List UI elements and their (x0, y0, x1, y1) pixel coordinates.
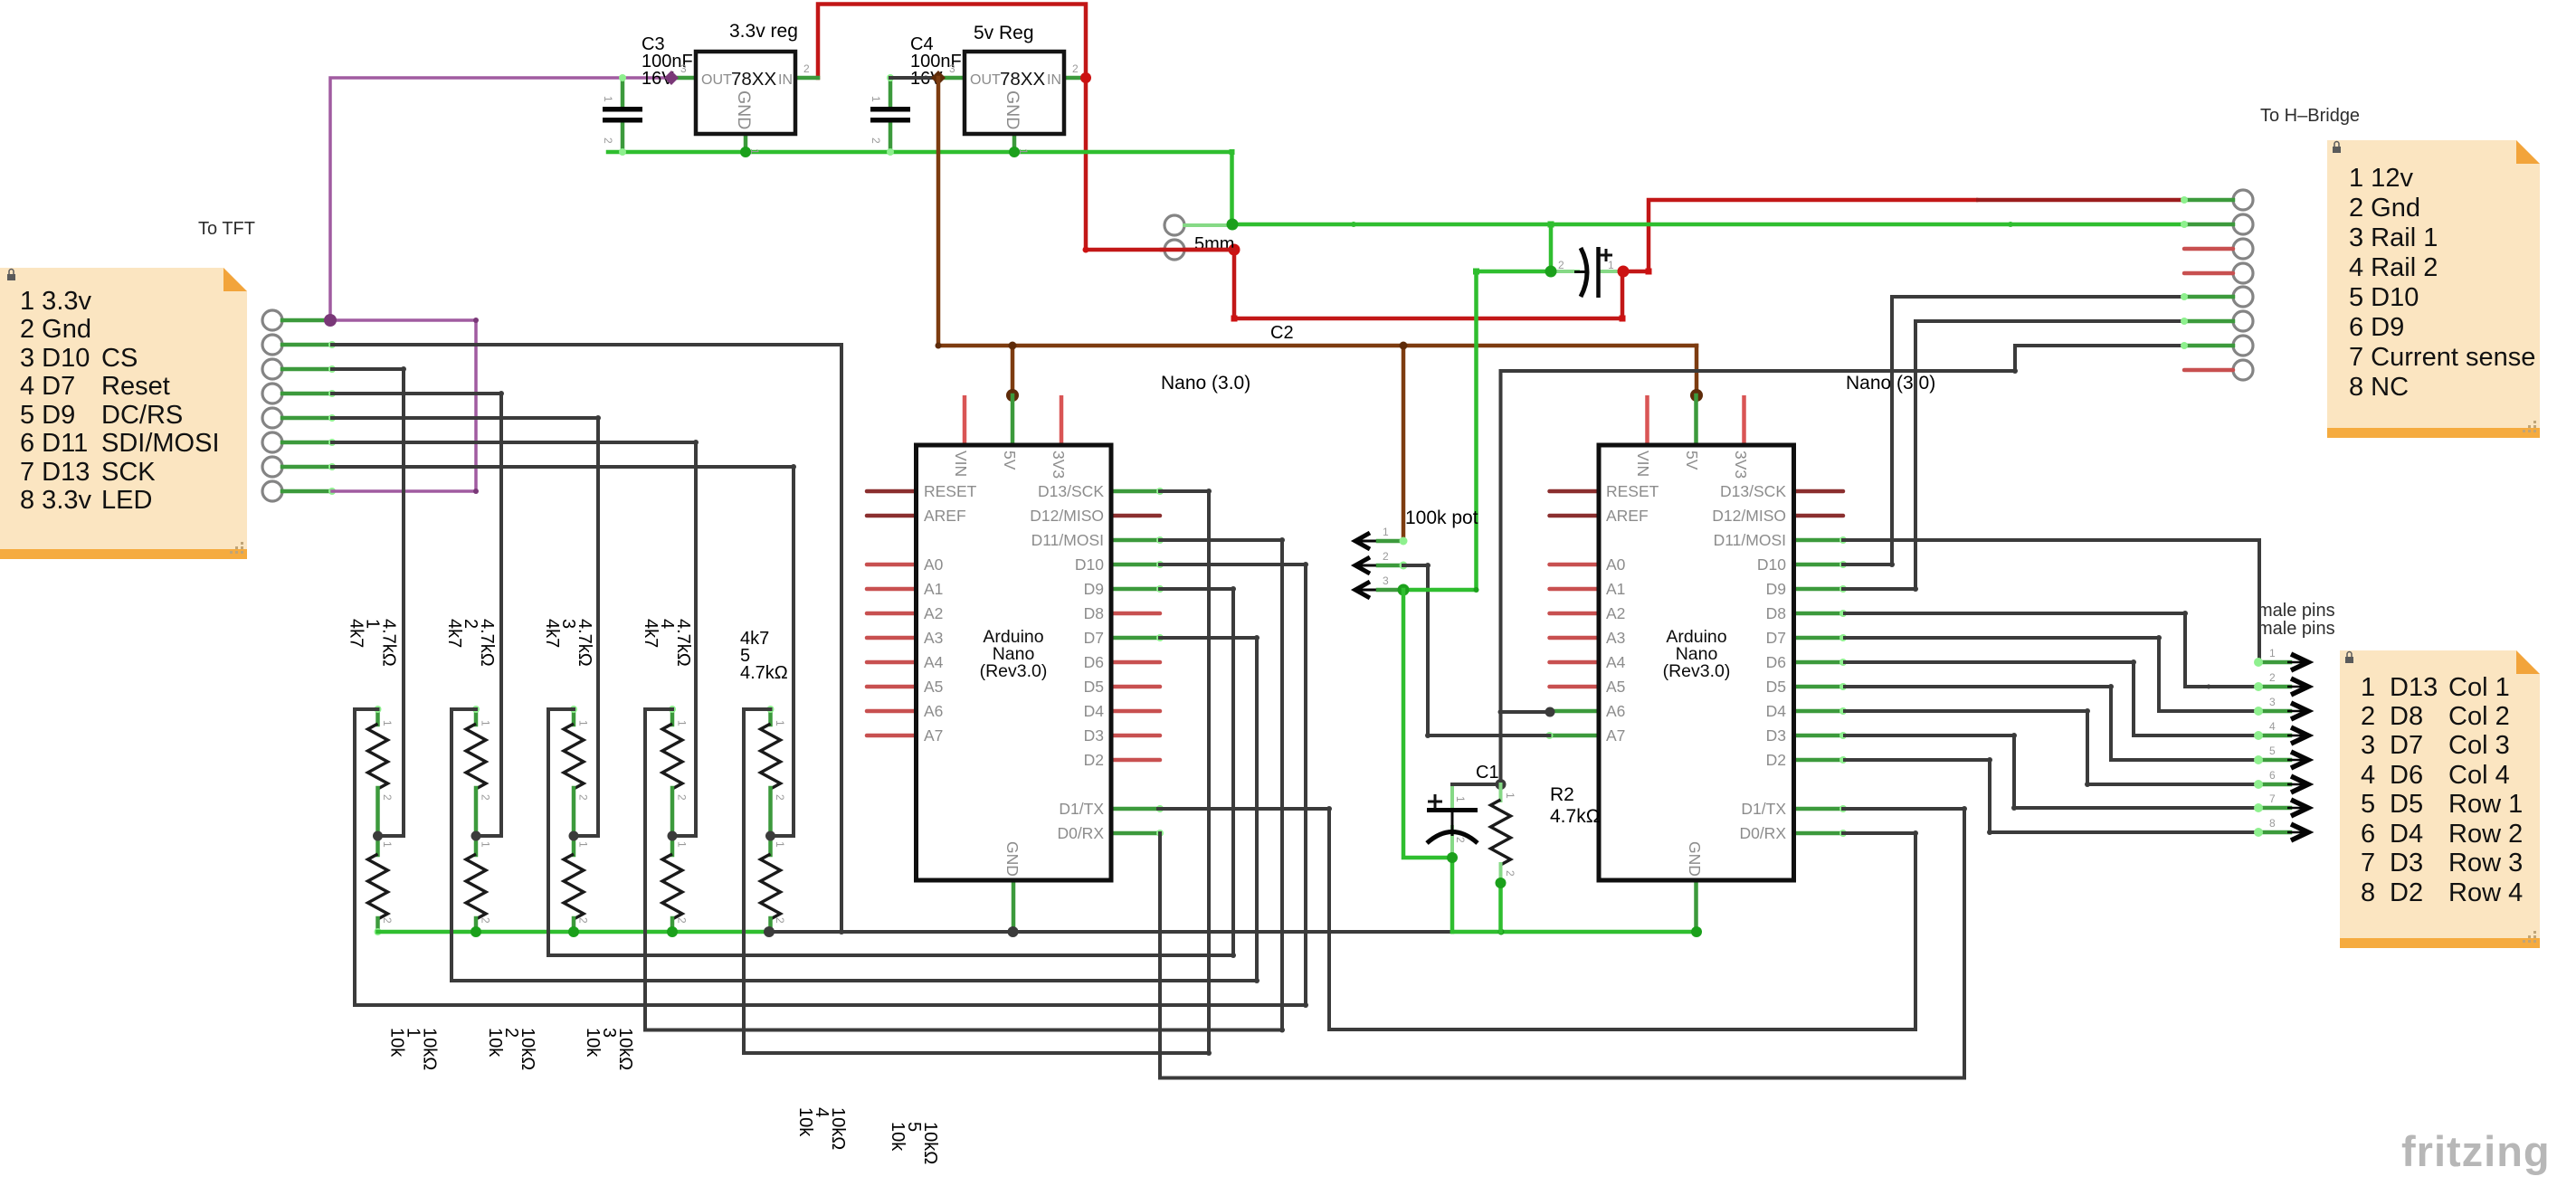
svg-text:10kΩ: 10kΩ (920, 1122, 940, 1164)
svg-text:4.7kΩ: 4.7kΩ (1550, 806, 1600, 827)
svg-text:A7: A7 (924, 726, 943, 745)
svg-text:C2: C2 (1270, 323, 1294, 343)
wire: C1+ to junction (1452, 783, 1501, 786)
svg-text:1: 1 (870, 96, 882, 102)
svg-text:6: 6 (2269, 769, 2276, 782)
svg-text:A4: A4 (924, 653, 944, 671)
svg-text:2: 2 (1383, 550, 1389, 563)
wire: brown drop to Nano1 5V (1011, 346, 1015, 395)
svg-text:A5: A5 (924, 678, 943, 696)
svg-text:1: 1 (480, 841, 492, 848)
svg-text:(Rev3.0): (Rev3.0) (1663, 661, 1731, 681)
sticky note: To TFT pin list (0, 268, 247, 559)
svg-text:D6: D6 (1084, 653, 1104, 671)
junction: red dots (5v reg IN, 5mm, C2+) (1080, 72, 1091, 83)
svg-text:D4: D4 (1084, 702, 1105, 720)
wire: 12v to 5mm jack pin2 (1086, 248, 1234, 252)
svg-text:OUT: OUT (970, 72, 1001, 88)
svg-text:1: 1 (1504, 792, 1516, 799)
svg-text:1 12v: 1 12v (2349, 164, 2413, 193)
svg-text:4.7kΩ: 4.7kΩ (477, 619, 497, 667)
svg-text:To TFT: To TFT (198, 219, 255, 239)
svg-text:A5: A5 (1606, 678, 1625, 696)
potentiometer 100k pot (1355, 526, 1408, 598)
svg-text:A0: A0 (1606, 555, 1626, 574)
svg-text:D5: D5 (1766, 678, 1786, 696)
capacitor C1 (electrolytic) (1427, 763, 1499, 858)
svg-text:2: 2 (2269, 671, 2276, 684)
wire: TFT pin4 to R column2 mid (332, 394, 501, 836)
svg-text:2: 2 (870, 138, 882, 144)
wire: Nano1 D0/RX to Nano2 D1/TX (1160, 809, 1964, 1078)
svg-text:1: 1 (676, 720, 689, 726)
wire: H-Bridge pin5 to Nano2 D10 (1843, 297, 2186, 565)
wire: TFT pin6 to R column4 mid (332, 442, 696, 836)
svg-text:A1: A1 (924, 580, 943, 598)
svg-text:2: 2 (577, 794, 590, 801)
svg-text:fritzing: fritzing (2401, 1127, 2551, 1175)
svg-text:OUT: OUT (701, 72, 732, 88)
voltage regulator 5v Reg (78XX) (931, 52, 1086, 155)
svg-text:3: 3 (2361, 731, 2375, 760)
capacitor C4 (870, 34, 962, 156)
svg-text:male pins: male pins (2258, 619, 2335, 639)
svg-text:2: 2 (381, 917, 394, 924)
svg-text:2: 2 (1072, 62, 1079, 75)
svg-text:4.7kΩ: 4.7kΩ (673, 619, 693, 667)
wire: GND rail to H-Bridge pin2 (1232, 223, 2186, 227)
wire: C4 to 5v reg OUT (black) (890, 76, 938, 80)
svg-text:D13: D13 (2390, 673, 2438, 702)
resistor pair column 4 (641, 619, 848, 1150)
svg-text:A7: A7 (1606, 726, 1625, 745)
svg-text:1: 1 (676, 841, 689, 848)
svg-text:D5: D5 (2390, 790, 2423, 819)
svg-text:7: 7 (2361, 849, 2375, 878)
svg-text:1: 1 (2269, 647, 2276, 659)
svg-text:2: 2 (803, 62, 810, 75)
wire: 12v top rail (red) (818, 5, 1086, 251)
svg-text:D9: D9 (1766, 580, 1786, 598)
capacitor C2 (electrolytic) (1270, 247, 1621, 343)
wire: resistor GND bus (green part) (378, 930, 770, 935)
svg-text:5 D10: 5 D10 (2349, 283, 2419, 312)
svg-text:IN: IN (1047, 72, 1061, 88)
junction: green dot GND rail at 5mm (1227, 219, 1239, 231)
wire: R col1 top loop to Nano1 D10 (355, 565, 1306, 1005)
svg-text:100k pot: 100k pot (1405, 508, 1478, 528)
svg-text:D12/MISO: D12/MISO (1712, 507, 1786, 525)
wire: Nano2 D6 to male pin4 (1845, 662, 2257, 735)
op-amp U1: Arduino Nano (Rev3.0) #1 (867, 395, 1164, 932)
svg-text:2: 2 (577, 917, 590, 924)
svg-text:6 D11: 6 D11 (20, 429, 88, 458)
svg-text:8 NC: 8 NC (2349, 373, 2409, 402)
svg-text:RESET: RESET (1606, 482, 1659, 500)
H-Bridge header connector (8 pins) (2181, 190, 2253, 380)
svg-text:D11/MOSI: D11/MOSI (1714, 531, 1786, 549)
svg-text:2: 2 (774, 917, 786, 924)
svg-text:3: 3 (949, 62, 955, 75)
svg-text:8: 8 (2361, 878, 2375, 907)
svg-text:GND: GND (1003, 90, 1022, 129)
svg-text:7: 7 (2269, 792, 2276, 805)
wire: R2 bottom to GND bus (1498, 883, 1503, 932)
svg-text:GND: GND (1003, 841, 1022, 877)
op-amp U2: Arduino Nano (Rev3.0) #2 (1546, 395, 1848, 932)
svg-text:5: 5 (2269, 745, 2276, 757)
svg-text:3V3: 3V3 (1050, 451, 1068, 479)
wire: C2+ to H-Bridge pin1 (1623, 200, 1976, 271)
svg-text:Col 3: Col 3 (2448, 731, 2510, 760)
wire: C1- down to GND bus (1450, 858, 1455, 932)
svg-text:Row 4: Row 4 (2448, 878, 2523, 907)
svg-text:D10: D10 (1075, 555, 1104, 574)
svg-text:1: 1 (774, 720, 786, 726)
svg-text:D13/SCK: D13/SCK (1720, 482, 1786, 500)
sticky note: male pins list (2340, 650, 2540, 948)
wire: Nano2 D3 to male pin7 (1845, 735, 2257, 808)
svg-text:4.7kΩ: 4.7kΩ (379, 619, 399, 667)
svg-text:D1/TX: D1/TX (1059, 800, 1104, 818)
wire: Nano1 D1/TX to Nano2 D0/RX (1158, 809, 1915, 1029)
svg-text:DC/RS: DC/RS (101, 401, 183, 430)
svg-text:78XX: 78XX (1000, 69, 1045, 90)
svg-text:Row 1: Row 1 (2448, 790, 2523, 819)
svg-text:A6: A6 (924, 702, 943, 720)
svg-text:Reset: Reset (101, 372, 170, 401)
wire: R col4 top loop to Nano1 D11/MOSI (645, 540, 1282, 1030)
wire: purple 3.3v from reg1 OUT (330, 78, 671, 320)
svg-text:1 3.3v: 1 3.3v (20, 287, 91, 316)
svg-text:R2: R2 (1550, 784, 1574, 805)
svg-text:LED: LED (101, 486, 152, 515)
svg-text:Col 1: Col 1 (2448, 673, 2510, 702)
svg-text:GND: GND (1686, 841, 1704, 877)
wire: purple TFT pin1 to pin8 (3.3v) (330, 320, 476, 491)
svg-text:VIN: VIN (952, 451, 970, 477)
svg-text:1: 1 (602, 96, 614, 102)
svg-text:10kΩ: 10kΩ (615, 1028, 635, 1070)
svg-text:D4: D4 (1766, 702, 1787, 720)
svg-text:D5: D5 (1084, 678, 1104, 696)
svg-text:2: 2 (1454, 837, 1467, 843)
svg-text:3 Rail 1: 3 Rail 1 (2349, 223, 2438, 252)
svg-text:1: 1 (2361, 673, 2375, 702)
svg-text:3V3: 3V3 (1732, 451, 1750, 479)
svg-text:2: 2 (1558, 259, 1564, 271)
svg-text:male pins: male pins (2258, 601, 2335, 621)
wire: TFT pin5 to R column3 mid (332, 418, 598, 836)
svg-text:2: 2 (381, 794, 394, 801)
wire: Nano2 D11/MOSI to male pin1 (1843, 540, 2259, 662)
wire: H-Bridge pin7 net down to Nano2 A6 and C1+ (1501, 346, 2187, 712)
svg-text:1: 1 (577, 841, 590, 848)
svg-text:2: 2 (774, 794, 786, 801)
wire: pot pin3 green to C2- riser (1403, 588, 1477, 593)
wire: brown drop to pot pin1 (1402, 346, 1406, 541)
svg-text:Row 2: Row 2 (2448, 820, 2523, 849)
svg-text:D13/SCK: D13/SCK (1038, 482, 1104, 500)
svg-text:Col 4: Col 4 (2448, 761, 2510, 790)
svg-text:D8: D8 (1084, 604, 1104, 622)
svg-text:7 D13: 7 D13 (20, 458, 90, 487)
svg-text:A2: A2 (1606, 604, 1625, 622)
svg-text:2: 2 (1504, 870, 1516, 877)
wire: regulator GND bus (green) (608, 152, 1232, 224)
svg-text:D1/TX: D1/TX (1741, 800, 1786, 818)
resistor R2 4.7k (1491, 784, 1601, 883)
svg-text:VIN: VIN (1634, 451, 1652, 477)
wire: R col3 top loop to Nano1 D9 (548, 589, 1233, 955)
svg-text:7 Current sense: 7 Current sense (2349, 343, 2535, 372)
svg-text:1: 1 (381, 720, 394, 726)
resistor pair column 1: 4k7 R + 10k R (347, 619, 440, 1070)
svg-text:D3: D3 (1084, 726, 1104, 745)
svg-text:8 3.3v: 8 3.3v (20, 486, 91, 515)
svg-text:1: 1 (480, 720, 492, 726)
wire: pot pin3 down to C1- (1403, 590, 1452, 858)
svg-text:2: 2 (676, 917, 689, 924)
svg-text:1: 1 (1454, 796, 1467, 802)
resistor pair column 2 (444, 619, 537, 1070)
svg-text:6 D9: 6 D9 (2349, 313, 2404, 342)
capacitor C3 (602, 34, 693, 156)
wire: Nano2 D7 to male pin3 (1845, 638, 2257, 711)
male pins header (8 arrows) (2254, 647, 2308, 840)
svg-text:3.3v reg: 3.3v reg (729, 21, 798, 42)
svg-text:4: 4 (2361, 761, 2375, 790)
svg-text:3: 3 (2269, 696, 2276, 708)
svg-text:A6: A6 (1606, 702, 1625, 720)
svg-text:(Rev3.0): (Rev3.0) (980, 661, 1048, 681)
svg-text:A3: A3 (924, 629, 943, 647)
svg-text:D2: D2 (2390, 878, 2423, 907)
junction: green dots on regulator GND bus (740, 147, 751, 157)
svg-text:A2: A2 (924, 604, 943, 622)
svg-text:2: 2 (2361, 702, 2375, 731)
wire: H-Bridge pin6 to Nano2 D9 (1843, 321, 2186, 589)
svg-text:D2: D2 (1084, 751, 1104, 769)
wire: GND bus right (green to Nano2 GND) (1452, 930, 1697, 935)
svg-text:5V: 5V (1001, 451, 1019, 470)
wire: R col5 top loop to Nano1 D13/SCK (744, 491, 1209, 1053)
svg-text:A1: A1 (1606, 580, 1625, 598)
TFT header connector (8 pins) (262, 310, 336, 501)
svg-text:SCK: SCK (101, 458, 156, 487)
svg-text:D4: D4 (2390, 820, 2423, 849)
junction: brown dots (936, 343, 942, 349)
svg-text:D7: D7 (1766, 629, 1786, 647)
wire: GND bus middle (black part) (769, 930, 1452, 934)
svg-text:AREF: AREF (1606, 507, 1649, 525)
wire: Nano2 D5 to male pin5 (1845, 687, 2257, 760)
svg-text:8: 8 (2269, 817, 2276, 830)
svg-text:5: 5 (2361, 790, 2375, 819)
svg-text:D12/MISO: D12/MISO (1030, 507, 1104, 525)
svg-text:D7: D7 (2390, 731, 2423, 760)
svg-text:4 Rail 2: 4 Rail 2 (2349, 253, 2438, 282)
svg-text:1: 1 (1608, 259, 1614, 271)
svg-text:4 D7: 4 D7 (20, 372, 75, 401)
wire: R col2 top loop to Nano1 D7 (452, 638, 1257, 981)
svg-text:2: 2 (602, 138, 614, 144)
svg-text:4.7kΩ: 4.7kΩ (740, 663, 788, 683)
wire: TFT pin7 to R column5 mid (332, 467, 794, 836)
svg-text:1: 1 (774, 841, 786, 848)
wire: brown drop to Nano2 5V (1695, 346, 1699, 395)
svg-text:2 Gnd: 2 Gnd (20, 315, 91, 344)
wire: red over 5mm jack pin2 (1162, 248, 1234, 252)
svg-text:D0/RX: D0/RX (1057, 824, 1104, 842)
svg-text:D2: D2 (1766, 751, 1786, 769)
wire: green from C2- down-left (1477, 224, 1552, 590)
sticky note: To H-Bridge pin list (2327, 140, 2540, 438)
svg-text:Nano (3.0): Nano (3.0) (1161, 373, 1250, 394)
svg-text:2: 2 (480, 917, 492, 924)
svg-text:D6: D6 (1766, 653, 1786, 671)
svg-text:5v Reg: 5v Reg (974, 23, 1034, 43)
svg-text:C1: C1 (1476, 763, 1499, 783)
wire: Nano2 D8 to male pin2 (1845, 613, 2257, 687)
svg-text:D8: D8 (2390, 702, 2423, 731)
svg-text:D6: D6 (2390, 761, 2423, 790)
wire: pot pin2 to Nano2 A7 (1403, 565, 1550, 735)
svg-text:10kΩ: 10kΩ (420, 1028, 440, 1070)
svg-text:A3: A3 (1606, 629, 1625, 647)
svg-text:3: 3 (1383, 574, 1389, 587)
wire: Nano2 D2 to male pin8 (1845, 760, 2257, 832)
svg-text:5 D9: 5 D9 (20, 401, 75, 430)
svg-text:6: 6 (2361, 820, 2375, 849)
svg-text:1: 1 (1383, 526, 1389, 538)
svg-text:D3: D3 (2390, 849, 2423, 878)
svg-text:1: 1 (577, 720, 590, 726)
svg-text:SDI/MOSI: SDI/MOSI (101, 429, 220, 458)
svg-text:To H–Bridge: To H–Bridge (2260, 106, 2360, 126)
wire: TFT pin2 Gnd down to bus (332, 345, 841, 932)
svg-text:D9: D9 (1084, 580, 1104, 598)
svg-text:3: 3 (680, 62, 687, 75)
svg-text:4: 4 (2269, 720, 2276, 733)
svg-text:CS: CS (101, 344, 138, 373)
svg-text:5V: 5V (1683, 451, 1701, 470)
junction dots on GND bus (471, 926, 481, 937)
svg-text:AREF: AREF (924, 507, 966, 525)
junction dots at resistor midpoints (373, 831, 383, 841)
svg-text:4.7kΩ: 4.7kΩ (575, 619, 594, 667)
svg-text:D0/RX: D0/RX (1739, 824, 1786, 842)
svg-text:Row 3: Row 3 (2448, 849, 2523, 878)
svg-text:GND: GND (734, 90, 754, 129)
svg-text:2: 2 (676, 794, 689, 801)
5mm barrel jack connector (1164, 215, 1234, 260)
wire: TFT pin3 to R column1 mid (332, 369, 404, 836)
svg-text:78XX: 78XX (731, 69, 776, 90)
svg-text:D10: D10 (1757, 555, 1786, 574)
wire: brown 5V net from C4 junction (938, 78, 1697, 346)
svg-text:3 D10: 3 D10 (20, 344, 90, 373)
svg-text:D7: D7 (1084, 629, 1104, 647)
svg-text:A4: A4 (1606, 653, 1626, 671)
svg-text:RESET: RESET (924, 482, 977, 500)
svg-text:IN: IN (778, 72, 793, 88)
resistor pair column 3 (542, 619, 635, 1070)
svg-text:A0: A0 (924, 555, 944, 574)
voltage regulator 3.3v reg (78XX) (664, 52, 818, 155)
wire: 12v 5mm to C2+ (1234, 250, 1622, 318)
svg-text:D11/MOSI: D11/MOSI (1031, 531, 1104, 549)
svg-text:Col 2: Col 2 (2448, 702, 2510, 731)
svg-text:D8: D8 (1766, 604, 1786, 622)
svg-text:2: 2 (480, 794, 492, 801)
svg-text:10kΩ: 10kΩ (828, 1107, 848, 1150)
wire: Nano2 D4 to male pin6 (1845, 711, 2257, 784)
svg-text:2 Gnd: 2 Gnd (2349, 194, 2420, 223)
svg-text:D3: D3 (1766, 726, 1786, 745)
svg-text:10kΩ: 10kΩ (518, 1028, 537, 1070)
svg-text:1: 1 (381, 841, 394, 848)
resistor pair column 5 (740, 629, 940, 1164)
